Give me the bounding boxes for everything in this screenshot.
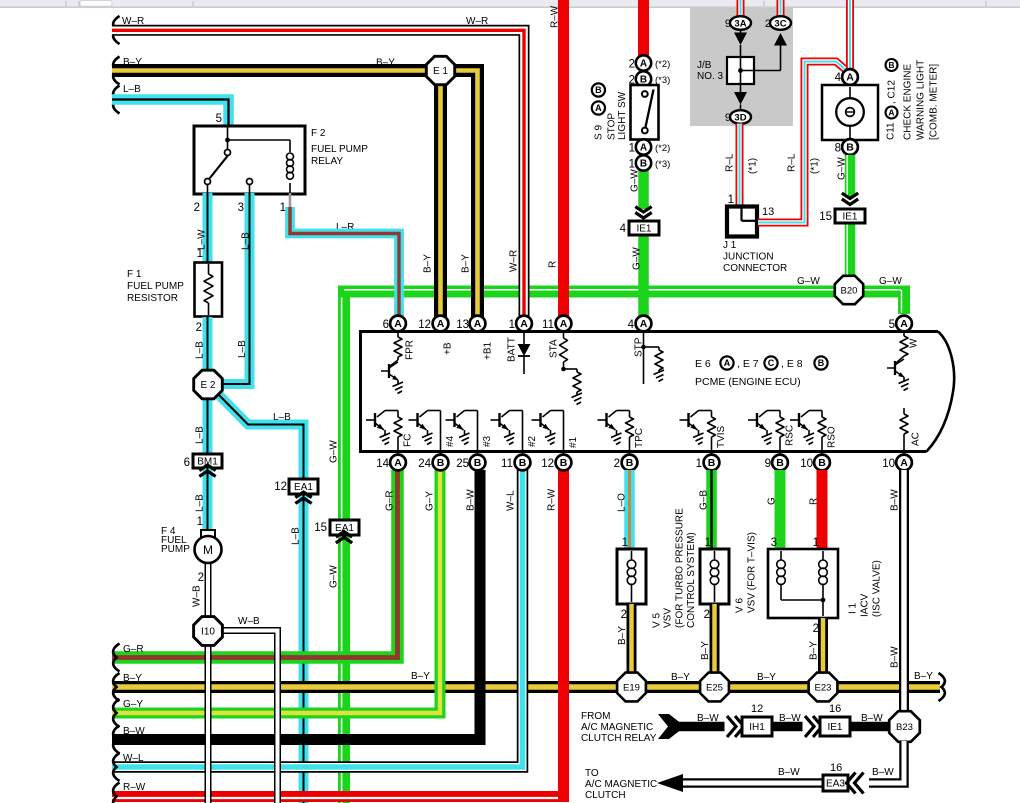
svg-text:B: B [888, 60, 894, 70]
ECU pin 14 FC [390, 455, 406, 471]
svg-text:B: B [437, 457, 445, 469]
svg-text:A: A [900, 318, 908, 330]
ECU internal #4 driver [409, 411, 441, 455]
svg-text:B: B [640, 159, 647, 170]
svg-text:16: 16 [829, 703, 841, 715]
V6 coil [710, 551, 719, 602]
svg-text:G–R: G–R [123, 644, 144, 655]
arrow chevrons below EA1(15) [336, 538, 352, 543]
wire B-Y from E1 right down to ECU pin 13 +B1 [453, 71, 478, 318]
ECU internal RSO driver [790, 411, 826, 455]
node E23 octagon [809, 673, 838, 702]
svg-text:PCME (ENGINE ECU): PCME (ENGINE ECU) [695, 376, 801, 388]
svg-text:V 6: V 6 [735, 598, 746, 613]
svg-text:A: A [640, 59, 647, 70]
relay F2 coil branch wire [228, 139, 291, 141]
wire B-Y V6 to E25 [710, 604, 720, 674]
connector EA1 box on L-B wire [289, 479, 318, 494]
wire R-W feed to stop light switch [638, 0, 649, 56]
arrow chevrons into IE1 bottom [803, 721, 825, 732]
node E25 octagon [700, 673, 729, 702]
I1 right coil [819, 551, 828, 616]
svg-text:RELAY: RELAY [311, 156, 343, 167]
svg-text:3A: 3A [734, 18, 746, 29]
resistor F1 box [195, 263, 223, 317]
break symbol R-W bus [113, 783, 119, 803]
svg-text:1: 1 [696, 458, 702, 470]
svg-text:15: 15 [314, 522, 327, 534]
wire B-Y long bus across bottom [112, 681, 940, 693]
check engine warning light box [822, 85, 878, 140]
svg-text:C11: C11 [886, 122, 897, 140]
V5 coil [627, 551, 636, 602]
svg-text:1: 1 [629, 159, 635, 171]
svg-text:F 1: F 1 [127, 269, 142, 280]
svg-text:3C: 3C [774, 18, 786, 29]
relay F2 switch blade [210, 156, 228, 179]
svg-text:A: A [394, 457, 402, 469]
svg-text:RSC: RSC [785, 425, 796, 446]
svg-text:16: 16 [830, 762, 842, 774]
svg-text:1: 1 [813, 537, 819, 549]
wire B-Y top bus into E1 [112, 64, 428, 77]
svg-text:LIGHT SW: LIGHT SW [617, 91, 628, 140]
svg-text:2: 2 [629, 59, 635, 71]
svg-text:2: 2 [198, 572, 204, 584]
svg-text:14: 14 [376, 458, 389, 470]
svg-text:6: 6 [184, 457, 190, 469]
svg-text:IH1: IH1 [749, 722, 765, 733]
svg-text:RSO: RSO [827, 426, 838, 448]
svg-text:L–B: L–B [237, 340, 248, 358]
svg-text:4: 4 [620, 223, 627, 235]
ECU right torn edge curve [927, 332, 955, 452]
svg-text:I 1: I 1 [848, 602, 859, 614]
svg-text:13: 13 [762, 206, 774, 218]
svg-text:C: C [768, 358, 775, 368]
node B23 octagon [889, 711, 920, 742]
svg-text:+B: +B [443, 342, 454, 355]
svg-text:CLUTCH: CLUTCH [585, 790, 626, 801]
svg-text:A: A [724, 358, 731, 368]
svg-text:B–W: B–W [123, 726, 145, 737]
svg-text:12: 12 [418, 319, 431, 331]
svg-text:#4: #4 [445, 435, 456, 447]
node E2 octagon [194, 370, 223, 399]
svg-text:B–W: B–W [778, 767, 800, 778]
svg-text:A: A [474, 318, 482, 330]
svg-text:CHECK ENGINE: CHECK ENGINE [903, 64, 914, 140]
svg-text:4: 4 [628, 319, 635, 331]
label S 9 connector circles [592, 83, 605, 96]
ECU pin 10 AC [896, 455, 912, 471]
node E1 octagon [426, 56, 454, 84]
svg-text:9: 9 [725, 18, 731, 30]
break symbol G-R bus [113, 644, 119, 672]
ECU internal #1 driver [532, 411, 564, 455]
svg-text:B: B [560, 457, 568, 469]
svg-text:A: A [595, 103, 602, 113]
relay F2 contact pin 2 [205, 179, 211, 185]
break symbol B-Y top bus [113, 57, 119, 85]
wire L-B vertical from EA1(12) to page bottom [299, 487, 309, 803]
svg-text:B–Y: B–Y [617, 626, 628, 645]
svg-text:B: B [519, 457, 527, 469]
break symbol B-Y bottom bus [113, 673, 119, 701]
svg-text:B–W: B–W [861, 713, 883, 724]
svg-text:B: B [474, 457, 482, 469]
svg-text:R: R [809, 498, 820, 505]
svg-text:J/B: J/B [697, 60, 712, 71]
connector IE1 box bottom [820, 717, 850, 736]
ECU pin 11 STA [556, 316, 572, 332]
svg-text:IE1: IE1 [842, 212, 857, 223]
svg-text:L–B: L–B [291, 527, 302, 545]
svg-text:5: 5 [889, 319, 895, 331]
wire L-B top bus to fuel pump relay pin 5 [112, 100, 229, 128]
svg-text:(ISC VALVE): (ISC VALVE) [872, 560, 883, 617]
svg-text:A: A [888, 108, 894, 118]
svg-text:BATT: BATT [507, 337, 518, 362]
ECU pin 4 STP [636, 316, 652, 332]
svg-text:B23: B23 [896, 722, 913, 733]
svg-text:1: 1 [280, 202, 286, 214]
svg-text:B–W: B–W [466, 489, 477, 511]
wire B-W bus from left break to ECU pin 25 riser [112, 470, 480, 740]
VSV V6 box [700, 549, 729, 604]
svg-text:R–W: R–W [547, 488, 558, 511]
wire R-L feed to 3C [777, 0, 785, 17]
svg-text:B: B [708, 457, 716, 469]
svg-text:1: 1 [197, 516, 203, 528]
svg-text:B–Y: B–Y [757, 672, 776, 683]
svg-text:9: 9 [765, 458, 771, 470]
svg-text:#3: #3 [482, 435, 493, 447]
svg-text:L–O: L–O [617, 493, 628, 512]
J/B internal relay box [727, 57, 754, 84]
svg-text:W–L: W–L [123, 753, 144, 764]
svg-text:CONNECTOR: CONNECTOR [723, 263, 787, 274]
svg-text:R–L: R–L [725, 153, 736, 172]
svg-text:G–Y: G–Y [425, 491, 436, 511]
svg-text:(FOR TURBO PRESSURE: (FOR TURBO PRESSURE [675, 508, 686, 628]
fuel pump F4 motor [201, 530, 215, 538]
svg-text:B–Y: B–Y [700, 641, 711, 660]
svg-text:VSV: VSV [663, 608, 674, 628]
ECU internal FPR driver [381, 332, 403, 394]
svg-text:B: B [626, 457, 634, 469]
svg-text:13: 13 [456, 319, 469, 331]
arrow chevrons above IE1(4) [638, 209, 650, 222]
svg-text:A: A [900, 457, 908, 469]
svg-text:8: 8 [835, 143, 841, 155]
svg-text:A/C MAGNETIC: A/C MAGNETIC [581, 722, 653, 733]
svg-text:1: 1 [728, 194, 734, 206]
svg-text:V 5: V 5 [652, 613, 663, 628]
svg-text:AC: AC [911, 432, 922, 446]
ECU pin 2 TPC [622, 455, 638, 471]
svg-text:A/C MAGNETIC: A/C MAGNETIC [585, 779, 657, 790]
svg-text:W–R: W–R [509, 250, 520, 272]
svg-text:4: 4 [835, 72, 842, 84]
svg-text:2: 2 [621, 609, 627, 621]
arrow tail from A/C relay [658, 714, 685, 739]
redraw verticals over green bus [290, 207, 524, 317]
svg-text:STA: STA [549, 339, 560, 358]
wire B-W ECU pin 10 AC down to B23 [899, 470, 909, 713]
wire L-B relay pin3 down and into E2 right side [222, 193, 250, 384]
svg-text:G: G [767, 497, 778, 505]
wire B-Y V5 to E19 [627, 604, 637, 674]
svg-text:STOP: STOP [607, 113, 618, 140]
svg-text:5: 5 [216, 113, 222, 125]
svg-text:R–W: R–W [550, 5, 561, 28]
svg-text:B: B [595, 85, 602, 95]
wire L-B E2 bottom to BM1 [203, 398, 213, 455]
svg-text:E25: E25 [706, 683, 723, 694]
svg-text:G–Y: G–Y [123, 699, 143, 710]
svg-text:B–Y: B–Y [423, 254, 434, 273]
break symbol B-Y bus right end [939, 673, 945, 701]
svg-text:A: A [846, 72, 854, 84]
wire G-B ECU pin 1 TVIS to V6 [706, 470, 717, 551]
svg-text:B: B [818, 457, 826, 469]
wire G ECU pin 9 RSC to I1 pin 3 [775, 470, 786, 551]
ECU pin 25 #3 [470, 455, 486, 471]
wire R-L feed from page top to pin 4A [846, 0, 854, 69]
IACV I1 box [768, 549, 838, 618]
svg-text:E19: E19 [623, 683, 640, 694]
ECU internal FC driver [366, 411, 402, 455]
svg-text:L–B: L–B [241, 232, 252, 250]
wire W-B from I10 right side down to page bottom [222, 631, 278, 803]
svg-text:G–W: G–W [630, 169, 641, 192]
svg-text:3: 3 [771, 537, 777, 549]
svg-text:, E 7: , E 7 [737, 358, 759, 370]
arrow chevrons below EA1(12) [295, 498, 311, 503]
stop light switch pin 2B [636, 71, 651, 86]
svg-text:E 1: E 1 [433, 66, 448, 77]
svg-text:G–W: G–W [797, 276, 820, 287]
svg-text:B–W: B–W [890, 646, 901, 668]
svg-text:A: A [520, 318, 528, 330]
svg-text:A: A [560, 318, 568, 330]
node B20 octagon [835, 276, 863, 304]
svg-text:W–B: W–B [192, 585, 203, 607]
svg-text:RESISTOR: RESISTOR [127, 293, 178, 304]
svg-text:2: 2 [614, 458, 620, 470]
svg-text:W–L: W–L [506, 490, 517, 511]
connector EA3 box [823, 775, 848, 791]
svg-text:M: M [203, 543, 213, 557]
svg-text:W–B: W–B [238, 616, 260, 627]
svg-text:I10: I10 [201, 627, 215, 638]
connector IE1 box on STP wire [629, 221, 659, 235]
VSV V5 box [617, 549, 646, 604]
svg-text:TO: TO [585, 768, 599, 779]
svg-text:IE1: IE1 [636, 224, 651, 235]
svg-text:10: 10 [882, 458, 895, 470]
wire W-L bus from left break to ECU pin 11 riser [112, 470, 523, 767]
svg-text:B: B [846, 142, 854, 154]
svg-text:FUEL PUMP: FUEL PUMP [127, 281, 184, 292]
ECU internal STP resistor [641, 332, 664, 384]
ECU pin 1 TVIS [704, 455, 720, 471]
svg-text:B–W: B–W [890, 489, 901, 511]
ECU internal W driver at pin 5 [887, 332, 909, 391]
svg-text:FPR: FPR [405, 340, 416, 360]
svg-text:A: A [640, 143, 647, 154]
wire B-Y I1 to E23 [818, 618, 828, 674]
arrow out of J/B to 3C [780, 46, 782, 71]
comb meter pin 4A [842, 69, 858, 85]
svg-text:FROM: FROM [581, 711, 610, 722]
svg-text:E 6: E 6 [695, 358, 711, 370]
wire W-R bus to ECU pin 1 BATT [112, 30, 524, 317]
ECU pin 6 FPR [390, 316, 406, 332]
ECU internal BATT diode [518, 332, 531, 374]
break symbol G-Y bus [113, 699, 119, 727]
ECU internal #2 driver [491, 411, 523, 455]
relay F2 contact pin 3 [247, 179, 253, 185]
wire L-R relay pin1 to ECU pin 6 FPR [290, 207, 399, 317]
relay F2 switch contact top [227, 140, 229, 150]
stop light switch contacts and blade [642, 90, 654, 134]
connector BM1 box [193, 454, 222, 468]
svg-text:1: 1 [629, 143, 635, 155]
arrowhead to A/C clutch [657, 774, 683, 792]
wire R-W bus from left break to ECU pin 12 riser [112, 470, 564, 798]
wire L-B BM1 to fuel pump [203, 468, 213, 531]
resistor F1 element [208, 264, 210, 274]
svg-text:B: B [818, 358, 825, 368]
wire G-Y bus from left break to ECU pin 24 riser [112, 470, 440, 713]
svg-text:L–B: L–B [273, 412, 291, 423]
svg-text:G–B: G–B [699, 490, 710, 510]
svg-text:G–W: G–W [329, 565, 340, 588]
wire G-W from B20 right to ECU pin 5 [862, 290, 904, 314]
arrow chevrons below BM1 [199, 471, 215, 476]
ECU internal STA resistors [560, 332, 583, 405]
break symbol W-R bus [113, 16, 119, 44]
connector 3A oval [730, 16, 751, 30]
svg-text:B–W: B–W [779, 713, 801, 724]
ECU pin 24 #4 [433, 455, 449, 471]
svg-text:12: 12 [751, 703, 763, 715]
svg-text:WARNING LIGHT: WARNING LIGHT [916, 60, 927, 140]
svg-text:E 2: E 2 [200, 380, 215, 391]
svg-text:VSV (FOR T–VIS): VSV (FOR T–VIS) [747, 532, 758, 613]
svg-text:B–Y: B–Y [411, 671, 430, 682]
wire L-W relay pin2 to resistor F1 [203, 193, 213, 262]
svg-text:25: 25 [456, 458, 469, 470]
svg-text:+B1: +B1 [483, 341, 494, 360]
ECU pin 13 +B1 [470, 316, 486, 332]
wire G-R bus from left break to ECU pin 14 riser [112, 470, 398, 658]
svg-text:1: 1 [705, 537, 711, 549]
svg-text:G–W: G–W [879, 276, 902, 287]
stop light switch pin 1B [636, 155, 651, 170]
svg-text:L–B: L–B [195, 426, 206, 444]
svg-text:(*3): (*3) [655, 159, 670, 170]
svg-text:B–Y: B–Y [461, 254, 472, 273]
arrow down to 3D [740, 71, 742, 93]
svg-text:(*2): (*2) [655, 143, 670, 154]
svg-text:2: 2 [765, 18, 771, 30]
svg-text:[COMB. METER]: [COMB. METER] [929, 64, 940, 140]
ECU pin 12 #1 [556, 455, 572, 471]
ECU pin 5 (B20 feed) [896, 316, 912, 332]
svg-text:6: 6 [383, 319, 389, 331]
svg-text:L–W: L–W [197, 229, 208, 250]
connector 3D oval [730, 110, 751, 124]
svg-text:11: 11 [501, 458, 513, 470]
wire B-Y from E1 bottom down to ECU pin 12 +B [434, 83, 447, 317]
connector 3C oval [770, 16, 791, 30]
svg-text:#2: #2 [527, 435, 538, 447]
svg-text:A: A [437, 318, 445, 330]
svg-text:S 9: S 9 [594, 125, 605, 140]
wire G-W vertical from G-W bus down to page bottom [342, 292, 344, 803]
svg-text:B–W: B–W [697, 713, 719, 724]
ECU pin 1 BATT [516, 316, 532, 332]
I1 left coil [777, 551, 823, 600]
break symbol L-B top bus [113, 86, 119, 114]
svg-text:JUNCTION: JUNCTION [723, 252, 774, 263]
node I10 octagon [194, 617, 223, 646]
relay F2 internal junction node [227, 127, 229, 140]
wire L-B resistor F1 to E2 [203, 317, 213, 371]
svg-text:15: 15 [819, 211, 832, 223]
wire G-W from pin 8B to B20 [847, 155, 850, 277]
wire W-B from fuel pump through I10 to page bottom [205, 562, 212, 803]
ECU pin 10 RSO [814, 455, 830, 471]
svg-text:G–W: G–W [329, 440, 340, 463]
svg-text:A: A [640, 318, 648, 330]
svg-text:G–R: G–R [385, 490, 396, 511]
svg-text:L–B: L–B [195, 494, 206, 512]
ECU internal AC resistor [900, 408, 908, 454]
ECU internal #3 driver [446, 411, 478, 455]
svg-text:12: 12 [541, 458, 554, 470]
ECU internal RSC driver [748, 411, 784, 455]
svg-text:B–W: B–W [872, 767, 894, 778]
svg-text:, C12: , C12 [887, 80, 898, 104]
svg-text:G–W: G–W [632, 247, 643, 270]
svg-text:CLUTCH RELAY: CLUTCH RELAY [581, 733, 657, 744]
svg-text:B–Y: B–Y [809, 641, 820, 660]
svg-text:1: 1 [197, 248, 203, 260]
svg-text:CONTROL SYSTEM): CONTROL SYSTEM) [686, 532, 697, 628]
svg-text:B20: B20 [841, 286, 858, 297]
svg-text:, E 8: , E 8 [781, 358, 803, 370]
svg-text:12: 12 [274, 481, 287, 493]
svg-text:IACV: IACV [860, 593, 871, 617]
svg-text:B–Y: B–Y [914, 671, 933, 682]
svg-text:FUEL PUMP: FUEL PUMP [311, 144, 368, 155]
wire B-W from A/C relay to B23 [672, 722, 890, 732]
svg-text:(*1): (*1) [748, 158, 759, 174]
break symbol W-L bus [113, 753, 119, 781]
svg-text:NO. 3: NO. 3 [697, 71, 724, 82]
svg-text:2: 2 [196, 322, 202, 334]
wire R-W thick red from page top to ECU pin 11 STA [558, 0, 569, 317]
svg-text:B–Y: B–Y [123, 673, 142, 684]
break symbol B-W bus [113, 726, 119, 754]
stop light switch pin 1A [636, 139, 651, 154]
svg-text:B–Y: B–Y [671, 672, 690, 683]
svg-text:J 1: J 1 [723, 240, 737, 251]
